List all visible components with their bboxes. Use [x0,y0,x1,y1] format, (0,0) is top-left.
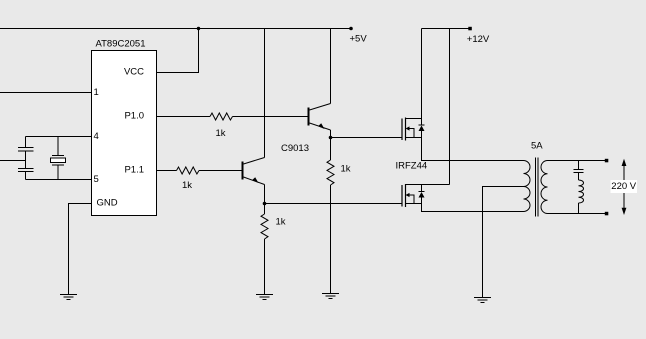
capacitor C2 [18,169,34,172]
svg-text:220 V: 220 V [611,181,636,192]
wire +5V to Q2 collector [264,29,266,158]
transformer T1 secondary winding [541,161,548,214]
resistor R1 1k [210,113,233,120]
svg-text:P1.1: P1.1 [124,165,144,176]
node Q1 emitter junction dot [329,136,333,140]
wire resistor R3 to ground [330,185,332,294]
ground GND3 [322,294,339,299]
svg-text:1: 1 [94,87,99,98]
IC U1 AT89C2051 body [92,51,157,216]
ground GND4 [474,298,491,303]
crystal X1 [51,137,66,180]
ground GND1 [60,295,77,300]
svg-text:IRFZ44: IRFZ44 [396,161,428,172]
wire M1 drain to +12V rail [421,29,423,119]
wire Q1 emitter node to M1 gate [331,137,403,139]
svg-text:GND: GND [97,198,118,209]
svg-text:C9013: C9013 [281,143,309,154]
wire +5V to Q1 collector [330,29,332,104]
node Q2 emitter junction dot [263,202,267,206]
node +5V junction dot [197,27,200,30]
transformer T1 core [536,158,539,217]
diode M1 body diode [419,119,425,138]
ground GND2 [256,295,273,300]
wire Q2 emitter node to M2 gate [265,203,403,205]
terminal +5V dot [349,27,353,31]
mosfet M2 IRFZ44 (lower) [402,184,450,207]
wire +12V rail [422,28,471,30]
svg-text:+12V: +12V [467,34,490,45]
capacitor C3 output filter [574,161,584,181]
wire secondary bottom to output [548,213,607,215]
wire P1.0 to resistor [157,116,211,118]
wire GND pin to ground [69,204,92,295]
terminal output bottom square [605,212,609,216]
svg-text:5: 5 [94,174,99,185]
wire resistor R2 to Q2 base [199,170,242,172]
wire capacitor branch vertical [25,137,27,180]
wire node to resistor R3 [330,138,332,161]
inductor L1 output filter [579,180,584,214]
resistor R2 1k [177,167,200,174]
svg-text:1k: 1k [182,180,192,191]
label 220 V arrow [611,159,638,215]
wire P1.1 to resistor [157,170,177,172]
wire pin 4 to crystal [26,136,92,138]
wire +5V rail [0,28,351,30]
resistor R4 1k (vertical) [261,214,268,239]
svg-text:+5V: +5V [350,34,368,45]
svg-text:1k: 1k [341,164,351,175]
transformer T1 primary winding [524,161,531,212]
wire M2 drain to +12V rail [449,29,451,185]
resistor R3 1k (vertical) [327,160,334,185]
wire resistor R4 to ground [264,239,266,295]
wire Q2 emitter down to node [264,185,266,204]
terminal output top square [605,159,609,163]
svg-text:AT89C2051: AT89C2051 [96,39,146,50]
diode M2 body diode [419,185,425,204]
wire VCC to +5V rail [157,29,199,73]
mosfet M1 IRFZ44 (upper) [402,118,422,141]
wire node to resistor R4 [264,204,266,215]
capacitor C1 [18,148,34,152]
transistor Q1 C9013 (upper) [309,104,331,131]
wire transformer center tap to ground [483,187,524,298]
transistor Q2 C9013 (lower) [243,158,265,185]
wire capacitor midpoint to left edge [0,160,26,162]
svg-text:4: 4 [94,131,99,142]
svg-text:5A: 5A [531,141,543,152]
svg-text:VCC: VCC [124,67,144,78]
wire pin 5 to crystal [26,179,92,181]
wire Q1 emitter down to node [330,130,332,138]
wire M1 source to transformer primary top [422,138,524,161]
svg-text:P1.0: P1.0 [124,111,144,122]
wire resistor R1 to Q1 base [233,116,309,118]
wire M2 source to transformer primary bottom [422,204,524,212]
terminal +12V square [468,27,472,31]
wire secondary top to output [548,160,607,162]
svg-text:1k: 1k [276,217,286,228]
wire pin 1 to left edge [0,92,92,94]
svg-text:1k: 1k [216,128,226,139]
